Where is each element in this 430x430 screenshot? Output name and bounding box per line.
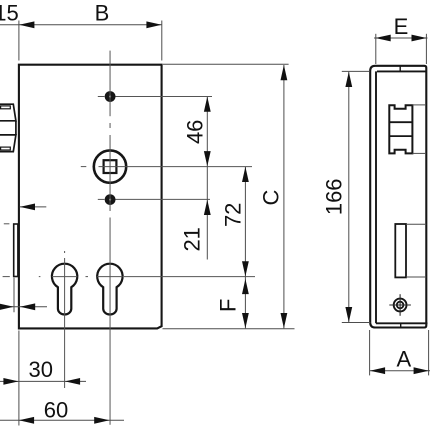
centerlines [3, 51, 255, 425]
screw hole bottom [107, 196, 113, 202]
166 top arrow [345, 72, 352, 87]
svg-text:166: 166 [321, 178, 346, 215]
bottom edge extension [163, 328, 295, 330]
E dimension line [374, 37, 428, 39]
72 top arrow [242, 167, 249, 182]
B left arrow [19, 21, 34, 28]
svg-text:21: 21 [180, 227, 205, 251]
C bottom arrow [281, 313, 288, 328]
46/21 dimension line [206, 97, 208, 260]
leader arrow y=207 [20, 204, 35, 211]
svg-text:F: F [216, 299, 241, 312]
F bottom arrow [242, 313, 249, 328]
svg-text:C: C [258, 189, 283, 205]
latch guide lines to case edge [412, 105, 426, 153]
166 dimension [348, 72, 350, 323]
lock case front outline [19, 65, 162, 329]
top edge extension [163, 63, 289, 65]
euro cylinder hole right [97, 264, 122, 315]
F top arrow [242, 279, 249, 294]
60 dimension [0, 419, 124, 421]
A dimension [370, 370, 430, 372]
lid joint top [377, 70, 426, 72]
arrows front view [0, 21, 287, 423]
screw hole (side view) [389, 294, 411, 316]
lid joint bottom [376, 322, 428, 324]
screw hole top [107, 93, 113, 99]
labels side view [321, 14, 411, 371]
svg-text:30: 30 [29, 357, 53, 382]
46 top arrow [204, 97, 211, 112]
left arrow leader y=207 [20, 206, 47, 208]
A left arrow [370, 367, 385, 374]
E right arrow [412, 35, 427, 42]
dimension line 15 / B [0, 24, 162, 26]
deadbolt slot (side view) [395, 224, 406, 277]
svg-text:60: 60 [44, 398, 68, 423]
72 bottom arrow [242, 261, 249, 276]
21 bottom arrow (outside, pointing up) [204, 200, 211, 215]
C dimension line [283, 65, 285, 328]
vertical centerline cylinder1 [64, 251, 66, 253]
svg-text:B: B [95, 1, 110, 26]
arrows side view [345, 35, 428, 375]
60 arrows (inside) [19, 417, 34, 424]
30 arrows (outside) [3, 378, 18, 385]
vertical centerline through screws/spindle/cylinder2 [109, 51, 111, 117]
euro cylinder hole left [52, 264, 77, 315]
72/F dimension line [244, 167, 246, 329]
horizontal centerline cylinders [3, 276, 10, 278]
svg-text:46: 46 [182, 120, 207, 144]
labels front view [0, 1, 283, 423]
spindle follower (square hub) [94, 150, 126, 182]
small dim y=307 [0, 306, 47, 308]
faceplate inner line [375, 71, 377, 323]
166 bottom arrow [345, 307, 352, 322]
A right arrow [414, 367, 429, 374]
extension line left of B [18, 21, 20, 61]
horizontal centerline screw2 [98, 198, 105, 200]
horizontal centerline spindle [81, 166, 87, 168]
E left arrow [376, 35, 391, 42]
svg-text:72: 72 [221, 203, 246, 227]
svg-text:E: E [394, 14, 409, 39]
horizontal centerline screw1 [98, 96, 105, 98]
extension line right of B [161, 21, 163, 61]
B right arrow [146, 21, 161, 28]
svg-text:A: A [397, 346, 412, 371]
latch block (side view) [389, 105, 412, 153]
deadbolt slot (front view) [14, 224, 18, 277]
latch bolt (front view, protruding left) [0, 104, 16, 151]
C top arrow [281, 65, 288, 80]
46 bottom arrow [204, 151, 211, 166]
svg-text:15: 15 [0, 1, 19, 26]
small dim arrows y=307 [0, 303, 14, 310]
30 dimension [0, 380, 86, 382]
side view outline [370, 66, 427, 328]
